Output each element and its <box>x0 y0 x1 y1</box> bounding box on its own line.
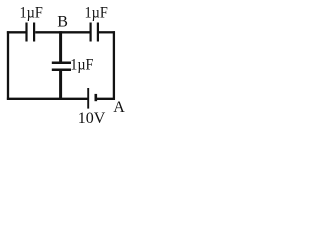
svg-text:1µF: 1µF <box>20 5 43 22</box>
wire: top segment from top-left corner to C1 <box>7 31 26 33</box>
wire: top segment from C2 to top-right corner <box>99 31 115 33</box>
capacitor C2 1uF left plate <box>89 23 91 42</box>
capacitor C3 1uF top plate <box>52 61 71 64</box>
wire: middle branch lower (C3 down to bottom wire) <box>59 70 62 100</box>
wire: top segment from C1 to C2 (through node B) <box>35 31 89 33</box>
svg-text:A: A <box>113 99 125 116</box>
capacitor C1 1uF left plate <box>25 23 27 42</box>
capacitor C2 1uF right plate <box>97 23 99 42</box>
wire: bottom segment from bottom-left corner to battery <box>7 98 88 100</box>
wire: bottom segment from battery to bottom-right corner <box>96 98 115 100</box>
svg-text:1µF: 1µF <box>70 56 93 73</box>
wire: right side of loop <box>113 31 115 100</box>
wire: middle branch upper (node B down to C3) <box>59 31 62 63</box>
background <box>0 0 130 134</box>
wire: left side of loop <box>7 31 9 100</box>
capacitor C3 1uF bottom plate <box>52 69 71 72</box>
battery V1 long plate (+) <box>87 88 89 109</box>
svg-text:1µF: 1µF <box>85 5 108 22</box>
svg-text:10V: 10V <box>78 110 106 127</box>
capacitor C1 1uF right plate <box>33 23 35 42</box>
svg-text:B: B <box>57 14 68 31</box>
battery V1 short plate (-) <box>95 94 98 101</box>
